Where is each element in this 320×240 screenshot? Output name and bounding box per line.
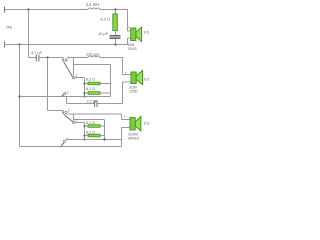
svg-text:8 Ω: 8 Ω [144,31,150,35]
svg-text:8,2 Ω: 8,2 Ω [86,121,95,125]
svg-text:8,2 Ω: 8,2 Ω [86,87,95,91]
svg-text:2,2 µF: 2,2 µF [86,99,98,104]
svg-text:2,4 mH: 2,4 mH [86,2,99,7]
svg-text:I/PΩ: I/PΩ [6,26,13,30]
svg-text:25/43: 25/43 [128,47,137,51]
svg-text:1: 1 [68,56,70,60]
svg-text:4,7 µF: 4,7 µF [31,50,43,55]
svg-text:13/50: 13/50 [129,90,138,94]
svg-text:8,2 Ω: 8,2 Ω [86,78,95,82]
svg-text:1: 1 [68,109,70,113]
svg-text:220 µH: 220 µH [86,52,99,57]
svg-text:WRG/2: WRG/2 [128,137,139,141]
svg-text:6,2 Ω: 6,2 Ω [101,16,110,21]
svg-text:3: 3 [67,90,69,94]
svg-text:8 Ω: 8 Ω [144,122,150,126]
svg-text:8,2 Ω: 8,2 Ω [86,130,95,134]
svg-text:8 Ω: 8 Ω [144,78,150,82]
svg-text:10 µF: 10 µF [98,31,109,36]
